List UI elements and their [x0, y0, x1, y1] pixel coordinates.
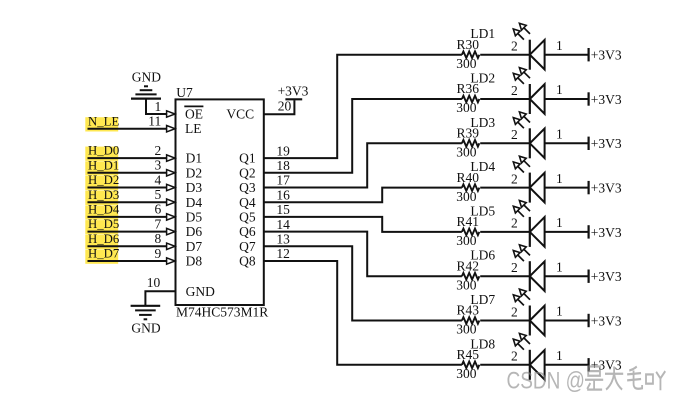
svg-text:13: 13 — [276, 232, 290, 247]
svg-text:+3V3: +3V3 — [591, 313, 622, 328]
svg-text:2: 2 — [511, 171, 518, 186]
svg-text:17: 17 — [276, 173, 290, 188]
svg-text:2: 2 — [511, 127, 518, 142]
svg-text:19: 19 — [276, 143, 290, 158]
svg-text:300: 300 — [456, 100, 477, 115]
svg-text:11: 11 — [148, 114, 161, 129]
svg-text:H_D6: H_D6 — [88, 232, 120, 246]
svg-text:CSDN @: CSDN @ — [507, 366, 585, 394]
svg-text:D3: D3 — [186, 180, 203, 195]
svg-text:1: 1 — [556, 127, 563, 142]
svg-text:1: 1 — [556, 38, 563, 53]
svg-text:2: 2 — [155, 143, 162, 158]
svg-text:GND: GND — [186, 284, 215, 299]
svg-text:300: 300 — [456, 277, 477, 292]
svg-text:2: 2 — [511, 83, 518, 98]
svg-text:1: 1 — [155, 99, 162, 114]
svg-text:+3V3: +3V3 — [591, 92, 622, 107]
svg-text:1: 1 — [556, 215, 563, 230]
svg-text:+3V3: +3V3 — [591, 48, 622, 63]
svg-text:1: 1 — [556, 259, 563, 274]
svg-text:GND: GND — [132, 70, 161, 85]
svg-text:12: 12 — [276, 246, 290, 261]
svg-text:300: 300 — [456, 233, 477, 248]
svg-text:300: 300 — [456, 189, 477, 204]
svg-text:300: 300 — [456, 145, 477, 160]
svg-text:Q6: Q6 — [239, 224, 256, 239]
svg-text:U7: U7 — [176, 85, 193, 100]
svg-text:1: 1 — [556, 348, 563, 363]
svg-text:16: 16 — [276, 187, 290, 202]
svg-text:+3V3: +3V3 — [591, 225, 622, 240]
svg-text:20: 20 — [278, 99, 292, 114]
svg-text:R42: R42 — [457, 258, 480, 273]
svg-text:GND: GND — [131, 321, 160, 336]
svg-text:D6: D6 — [186, 224, 203, 239]
svg-text:15: 15 — [276, 202, 290, 217]
svg-text:VCC: VCC — [226, 107, 254, 122]
svg-text:2: 2 — [511, 304, 518, 319]
svg-text:Q2: Q2 — [239, 165, 256, 180]
svg-text:H_D1: H_D1 — [88, 158, 119, 172]
svg-text:14: 14 — [276, 217, 290, 232]
svg-text:300: 300 — [456, 366, 477, 381]
svg-text:N_LE: N_LE — [88, 114, 119, 128]
svg-text:1: 1 — [556, 82, 563, 97]
svg-text:300: 300 — [456, 56, 477, 71]
svg-text:2: 2 — [511, 349, 518, 364]
svg-text:2: 2 — [511, 39, 518, 54]
svg-text:Q1: Q1 — [239, 151, 256, 166]
svg-text:H_D0: H_D0 — [88, 144, 119, 158]
svg-text:R36: R36 — [457, 81, 480, 96]
svg-text:+3V3: +3V3 — [591, 136, 622, 151]
svg-text:LE: LE — [185, 121, 202, 136]
svg-text:H_D3: H_D3 — [88, 188, 119, 202]
svg-text:18: 18 — [276, 158, 290, 173]
svg-text:M74HC573M1R: M74HC573M1R — [176, 305, 268, 320]
svg-text:4: 4 — [155, 172, 162, 187]
svg-text:H_D7: H_D7 — [88, 247, 120, 261]
svg-text:5: 5 — [155, 187, 162, 202]
svg-text:D1: D1 — [186, 151, 203, 166]
svg-text:2: 2 — [511, 260, 518, 275]
svg-text:7: 7 — [155, 216, 162, 231]
svg-text:R43: R43 — [457, 303, 480, 318]
svg-text:300: 300 — [456, 322, 477, 337]
svg-text:H_D2: H_D2 — [88, 173, 119, 187]
svg-text:R39: R39 — [457, 126, 480, 141]
svg-text:1: 1 — [556, 171, 563, 186]
svg-text:10: 10 — [147, 275, 161, 290]
svg-text:8: 8 — [155, 231, 162, 246]
svg-text:H_D4: H_D4 — [88, 203, 120, 217]
svg-text:Q4: Q4 — [239, 195, 256, 210]
svg-text:R30: R30 — [457, 37, 480, 52]
svg-text:9: 9 — [155, 246, 162, 261]
svg-text:Q7: Q7 — [239, 239, 256, 254]
svg-text:D5: D5 — [186, 210, 203, 225]
svg-text:Q5: Q5 — [239, 210, 256, 225]
svg-text:D2: D2 — [186, 165, 203, 180]
svg-text:+3V3: +3V3 — [278, 84, 309, 99]
svg-text:Q8: Q8 — [239, 254, 256, 269]
svg-text:R45: R45 — [457, 347, 480, 362]
svg-text:D8: D8 — [186, 254, 203, 269]
svg-text:+3V3: +3V3 — [591, 181, 622, 196]
svg-text:Q3: Q3 — [239, 180, 256, 195]
svg-text:R40: R40 — [457, 170, 480, 185]
svg-text:1: 1 — [556, 304, 563, 319]
svg-text:R41: R41 — [457, 214, 480, 229]
svg-text:2: 2 — [511, 216, 518, 231]
svg-text:D4: D4 — [186, 195, 203, 210]
svg-text:H_D5: H_D5 — [88, 217, 119, 231]
svg-text:3: 3 — [155, 158, 162, 173]
svg-text:6: 6 — [155, 202, 162, 217]
svg-text:OE: OE — [185, 107, 203, 122]
svg-text:D7: D7 — [186, 239, 203, 254]
svg-text:+3V3: +3V3 — [591, 269, 622, 284]
